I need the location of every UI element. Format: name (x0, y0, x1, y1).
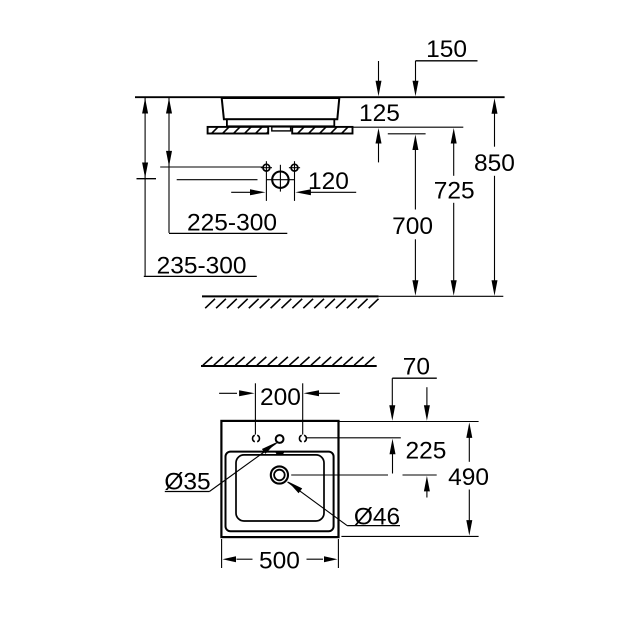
svg-text:200: 200 (260, 384, 301, 411)
ground hatching (205, 299, 378, 308)
dim 125 up arrow (376, 128, 382, 144)
svg-text:225-300: 225-300 (187, 210, 277, 237)
basin side-view body (222, 98, 340, 119)
dim 225-300 vertical line (168, 97, 170, 233)
dim 70 down arrow (391, 378, 393, 406)
svg-text:850: 850 (474, 150, 515, 177)
svg-text:500: 500 (259, 547, 300, 574)
basin bowl rounded rect (236, 455, 324, 521)
svg-text:235-300: 235-300 (157, 253, 247, 280)
dim 850 line upper (492, 98, 498, 114)
dim 225 up arrow (424, 476, 430, 492)
wire dia46 underline (347, 525, 400, 527)
wire dia35 underline (165, 491, 210, 493)
wire 500 left extension (221, 539, 223, 568)
dim 490 line upper (466, 422, 472, 438)
svg-text:725: 725 (434, 177, 475, 204)
dim 70 up arrow (390, 439, 396, 455)
dim 150 down arrow (415, 61, 417, 82)
dim 200 left tail+arrow (219, 392, 237, 394)
svg-text:125: 125 (359, 100, 400, 127)
svg-text:150: 150 (426, 36, 467, 63)
wire basin-bottom extension (341, 535, 478, 537)
wire left hole extension (254, 383, 256, 434)
wire small-holes center line (160, 166, 262, 168)
faucet hole middle (plan) (276, 435, 284, 443)
dim 125 down arrow (378, 61, 380, 82)
wire faucet-line extension right (306, 437, 400, 439)
leader dia46 (288, 482, 348, 526)
wire 500 right extension (337, 539, 339, 568)
dim 700 line upper (412, 135, 418, 151)
wire 150 bracket line (416, 60, 478, 62)
svg-text:225: 225 (405, 437, 446, 464)
wire shelf-bottom extension line (388, 133, 426, 135)
wire 235-300 underline (144, 275, 257, 277)
wire 235-300 boundary tick (137, 178, 157, 180)
dim 235-300 vertical line (144, 97, 146, 276)
svg-text:120: 120 (308, 168, 349, 195)
dim 500 left arrow (223, 556, 237, 562)
basin pedestal base (227, 119, 334, 126)
wire ground line (202, 295, 379, 297)
wire right hole extension (302, 383, 304, 434)
dim 120 right arrow+tail (295, 189, 311, 195)
wall hatching (plan) (203, 357, 374, 365)
dim 850 line lower (494, 176, 496, 281)
shelf middle drain box (272, 127, 291, 131)
wire 70 bracket line (392, 377, 437, 379)
dim 500 right arrow (307, 558, 324, 560)
basin rim rounded rect (226, 452, 334, 532)
shelf left segment (hatched) (199, 126, 274, 135)
wire wall top line (135, 96, 505, 98)
dim 225 down arrow (426, 387, 428, 406)
drain circles (271, 466, 288, 483)
svg-text:70: 70 (403, 353, 430, 380)
overflow slot (275, 452, 284, 455)
fixing hole left (upper view) (261, 161, 272, 201)
wire 225-300 underline (169, 232, 287, 234)
basin plan outer square (221, 421, 338, 537)
wire wall line (plan) (201, 365, 377, 367)
mixer hole big circle (upper view) (266, 165, 294, 192)
leader dia35 (209, 443, 276, 492)
dim 700 line lower (414, 239, 416, 281)
shelf right segment (hatched) (285, 126, 360, 135)
wire shelf-top extension line (353, 126, 464, 128)
dim 725 line lower (453, 203, 455, 281)
dim 490 line lower (468, 490, 470, 522)
wire big-hole center line (177, 179, 258, 181)
wire basin-top extension (339, 421, 479, 423)
dim 120 left tail+arrow (231, 191, 250, 193)
svg-text:700: 700 (392, 213, 433, 240)
dim 200 right arrow+tail (304, 390, 320, 396)
svg-text:490: 490 (448, 464, 489, 491)
faucet hole right (plan) (299, 435, 306, 441)
fixing hole right (upper view) (289, 161, 300, 201)
wire drain center extension (291, 474, 388, 476)
faucet hole left (plan) (253, 435, 260, 441)
svg-text:Ø46: Ø46 (354, 504, 400, 531)
dim 725 line upper (451, 128, 457, 144)
